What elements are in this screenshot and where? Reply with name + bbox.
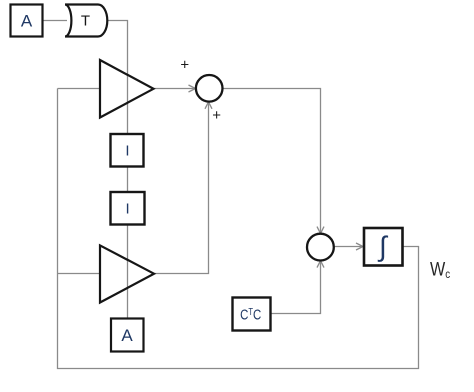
gain triangle 2 xyxy=(100,245,154,302)
wire A to T xyxy=(42,20,67,22)
block A bottom xyxy=(111,319,144,352)
summing junction 2 xyxy=(307,234,334,261)
svg-text:I: I xyxy=(125,143,129,160)
wire sum 2 output to integrator xyxy=(334,243,363,250)
svg-text:A: A xyxy=(21,12,33,31)
block CTC xyxy=(233,298,271,331)
wire feedback loop: integrator output down, bottom, left side up xyxy=(58,89,419,369)
svg-text:I: I xyxy=(126,201,130,218)
svg-text:Wc: Wc xyxy=(430,258,451,281)
svg-text:A: A xyxy=(121,326,133,345)
block A top xyxy=(11,5,43,37)
wire T output down through gain 1 to I1 xyxy=(107,21,128,135)
wire into gain 2 xyxy=(58,273,101,275)
wire sum 1 output to sum 2 xyxy=(223,89,325,234)
wire gain 2 output up to sum 1 xyxy=(154,102,212,274)
gain triangle 1 xyxy=(100,60,154,118)
summing junction 1 xyxy=(196,75,223,102)
wire gain 1 output to sum 1 xyxy=(154,85,196,92)
wire CTC output up to sum 2 xyxy=(271,261,325,314)
wire I1 to I2 xyxy=(127,167,129,193)
block I upper xyxy=(111,134,144,167)
svg-text:+: + xyxy=(180,57,189,74)
wire into gain 1 xyxy=(58,88,101,90)
label Wc xyxy=(430,258,451,281)
svg-text:+: + xyxy=(212,107,221,124)
block T stored-data shape xyxy=(65,5,107,37)
block I lower xyxy=(111,192,145,225)
block integrator xyxy=(364,228,403,266)
wire integrator output xyxy=(403,246,420,248)
svg-text:T: T xyxy=(81,12,90,29)
wire I2 down through gain 2 to A xyxy=(127,225,129,319)
